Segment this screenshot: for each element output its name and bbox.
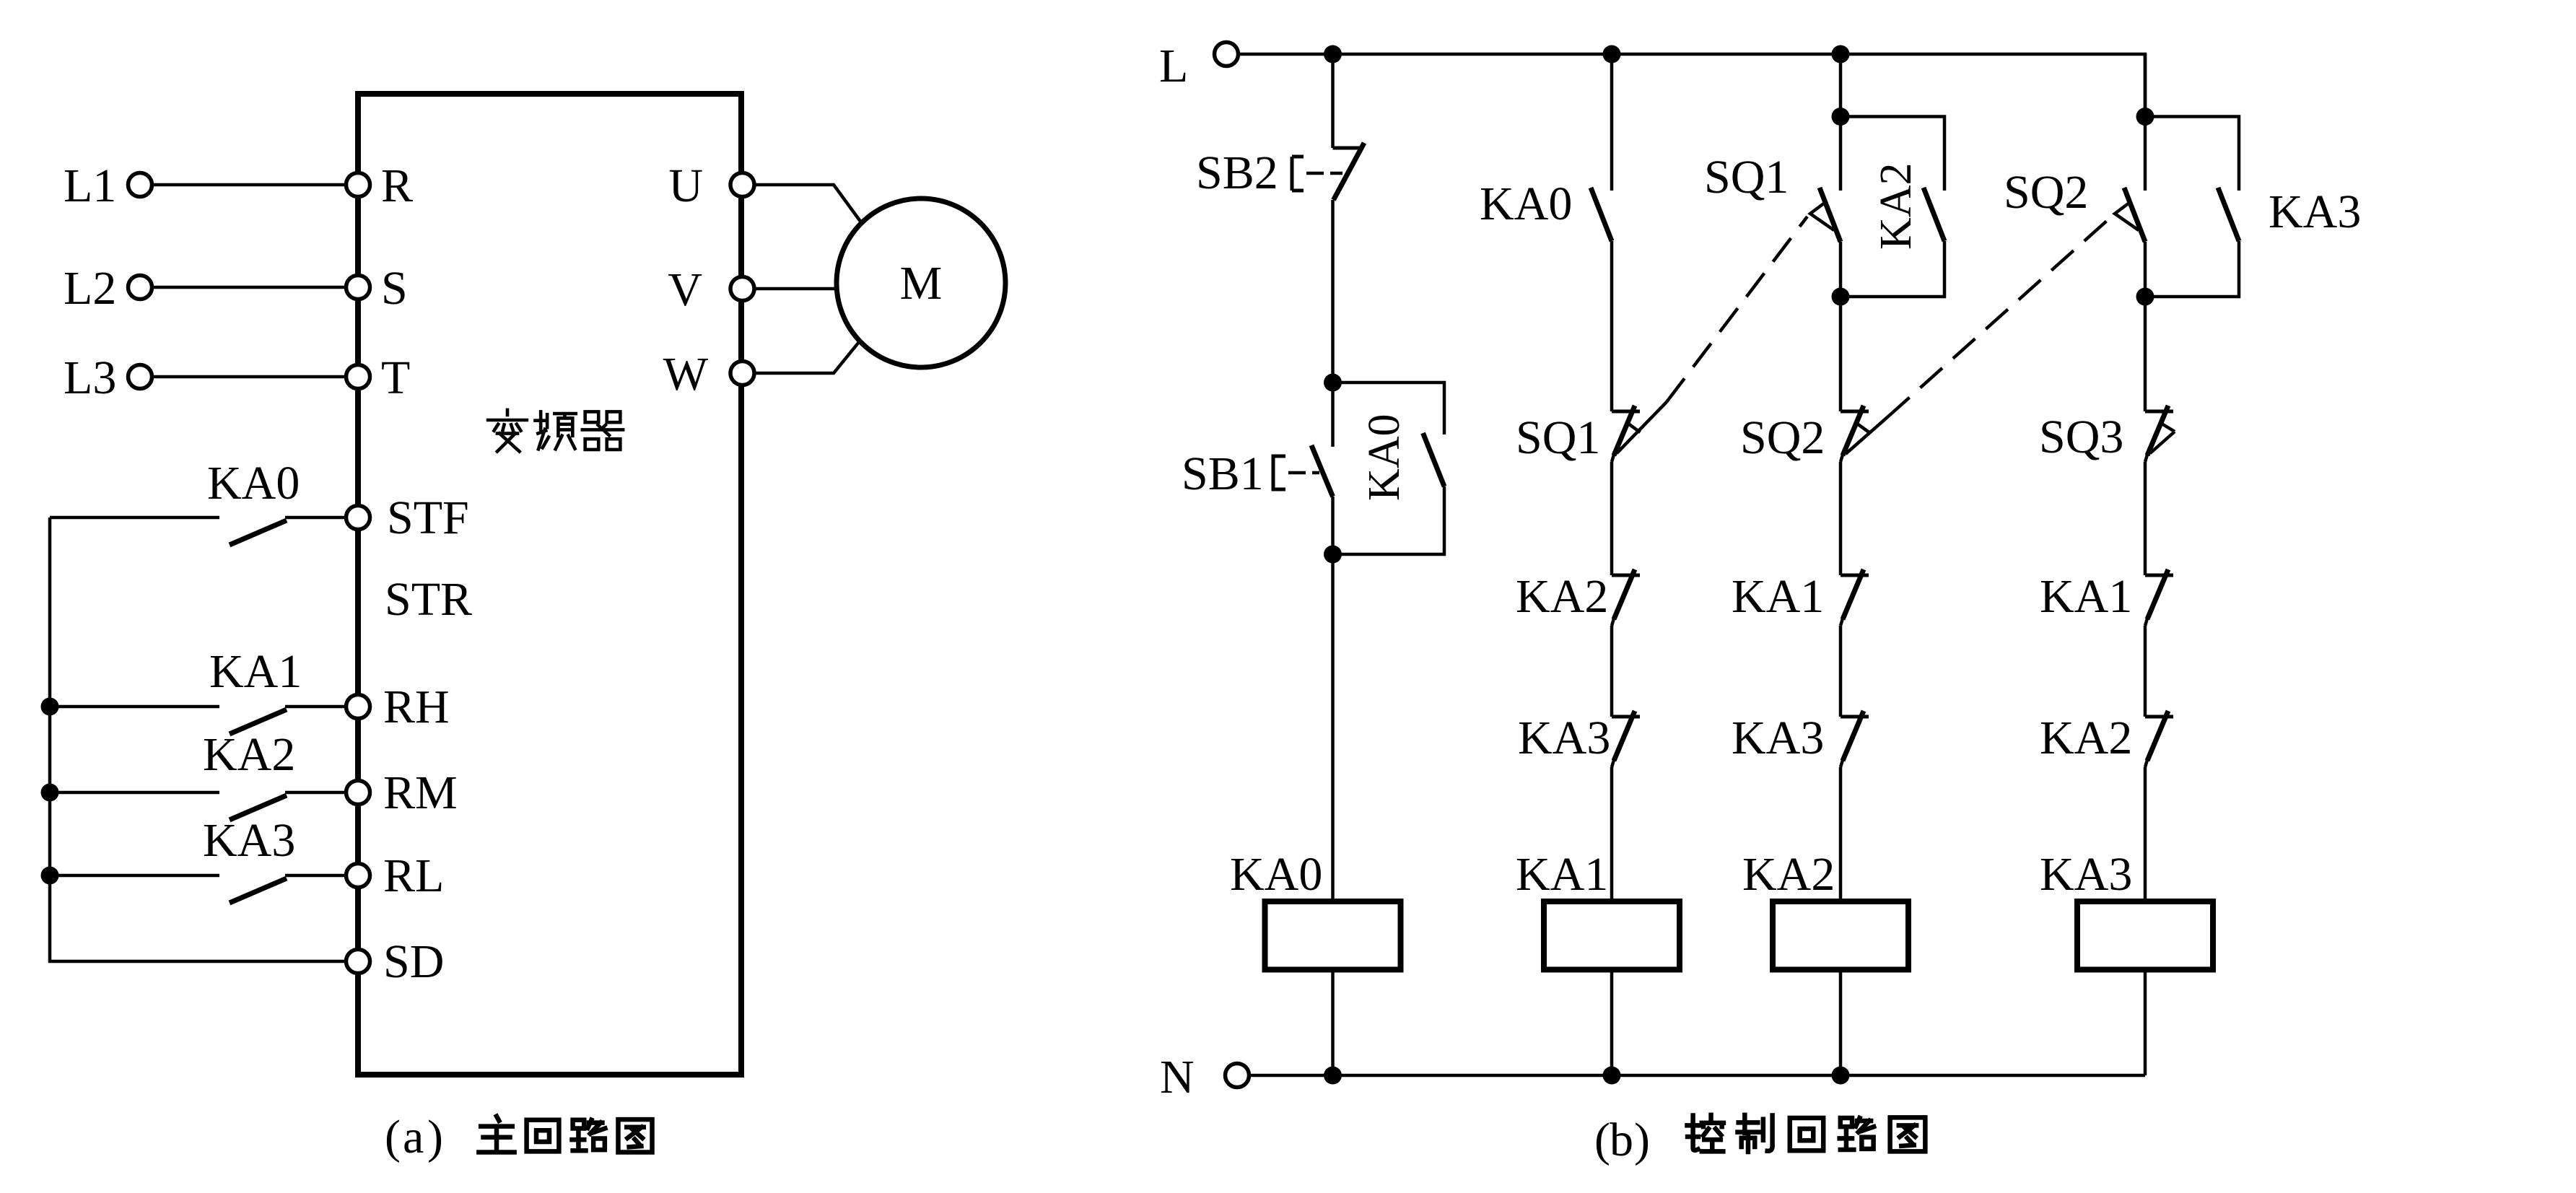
wire: [285, 705, 346, 709]
svg-text:W: W: [663, 348, 709, 401]
svg-text:KA2: KA2: [1872, 162, 1921, 250]
svg-text:KA3: KA3: [2269, 185, 2361, 238]
svg-text:KA2: KA2: [1742, 848, 1835, 901]
contact KA2 (NC): [1612, 574, 1640, 577]
svg-text:SQ3: SQ3: [2039, 411, 2123, 463]
terminal RH: [346, 695, 370, 719]
svg-text:KA2: KA2: [203, 728, 295, 781]
wire: [2144, 54, 2147, 117]
contact KA2 (NC): [2145, 715, 2173, 719]
wire: [50, 516, 219, 520]
terminal R: [346, 173, 370, 197]
switch blade: [230, 520, 287, 545]
wire: [1331, 200, 1335, 383]
junction: [41, 784, 59, 802]
wire: [1839, 767, 1843, 901]
contact KA0 latch (NO): [1333, 383, 1445, 434]
label 变频器: [488, 410, 527, 452]
svg-text:): ): [427, 1111, 443, 1163]
svg-text:L: L: [1159, 40, 1188, 92]
wire W to motor: [754, 342, 859, 373]
svg-text:V: V: [668, 263, 702, 316]
wire: [1610, 54, 1614, 191]
svg-text:a: a: [403, 1111, 424, 1163]
limit switch contact SQ3 (NC): [2145, 410, 2173, 414]
junction: [41, 698, 59, 716]
wire: [1331, 54, 1335, 148]
mechanical link SQ1 (dashed): [1667, 217, 1807, 402]
junction: [1832, 108, 1850, 126]
limit switch contact SQ1 (NO): [1839, 117, 1843, 191]
pushbutton SB2 (NC): [1333, 147, 1361, 150]
limit switch contact SQ2 (NO): [2144, 117, 2147, 191]
contact KA3 parallel branch (NO): [2145, 117, 2239, 191]
switch blade: [230, 795, 287, 820]
wire: [1610, 462, 1614, 575]
wire: [1610, 767, 1614, 901]
terminal L3: [128, 365, 152, 389]
limit switch contact SQ1 (NC): [1612, 410, 1640, 414]
svg-text:L3: L3: [64, 351, 116, 404]
wire: [2144, 297, 2147, 411]
wire V to motor: [754, 287, 837, 291]
svg-text:SQ1: SQ1: [1704, 151, 1789, 204]
wire: [50, 705, 219, 709]
svg-text:RH: RH: [383, 681, 450, 733]
wire: [1839, 626, 1843, 717]
contact KA1 (NC): [1841, 574, 1869, 577]
svg-text:KA0: KA0: [1230, 848, 1322, 901]
svg-text:RL: RL: [383, 849, 444, 902]
svg-text:SB2: SB2: [1196, 147, 1278, 199]
junction: [1832, 45, 1850, 64]
terminal RM: [346, 781, 370, 805]
contact KA2 parallel branch (NO): [1841, 117, 1944, 191]
wire N rail: [1249, 1074, 2145, 1078]
svg-text:S: S: [381, 262, 408, 315]
wire common left rail: [50, 517, 346, 961]
contact KA3 (NC): [1841, 715, 1869, 719]
wire: [152, 286, 346, 289]
wire: [1839, 462, 1843, 575]
wire: [50, 874, 219, 878]
svg-text:KA1: KA1: [1732, 570, 1824, 623]
svg-text:KA2: KA2: [1516, 570, 1608, 623]
junction: [41, 867, 59, 885]
terminal L2: [128, 276, 152, 300]
wire: [152, 375, 346, 379]
svg-text:SD: SD: [383, 935, 444, 988]
svg-text:KA1: KA1: [1516, 848, 1608, 901]
wire U to motor: [754, 185, 861, 222]
wire: [285, 791, 346, 795]
junction: [2136, 288, 2154, 306]
switch blade: [230, 878, 287, 903]
node L: [1215, 43, 1239, 66]
junction: [1324, 546, 1342, 564]
wire L rail: [1239, 54, 2145, 117]
svg-text:SQ1: SQ1: [1516, 411, 1600, 464]
svg-text:KA3: KA3: [203, 814, 295, 867]
terminal T: [346, 365, 370, 389]
wire: [2144, 970, 2147, 1076]
wire: [285, 874, 346, 878]
wire: [1610, 970, 1614, 1076]
wire: [1839, 970, 1843, 1076]
pushbutton SB1 (NO): [1331, 383, 1335, 447]
svg-text:KA3: KA3: [2040, 848, 2132, 901]
svg-text:STF: STF: [387, 491, 469, 544]
contact KA3 (NC): [1612, 715, 1640, 719]
wire: [1839, 297, 1843, 411]
wire: [50, 791, 219, 795]
svg-text:SB1: SB1: [1182, 447, 1264, 500]
svg-text:T: T: [381, 351, 410, 404]
svg-text:KA1: KA1: [209, 645, 302, 698]
terminal SD: [346, 950, 370, 974]
junction: [1324, 374, 1342, 392]
terminal L1: [128, 173, 152, 197]
terminal RL: [346, 864, 370, 888]
svg-text:KA2: KA2: [2040, 712, 2132, 764]
junction: [2136, 108, 2154, 126]
junction: [1832, 1067, 1850, 1085]
wire: [285, 516, 346, 520]
svg-text:(: (: [1594, 1114, 1610, 1166]
svg-text:KA1: KA1: [2040, 570, 2132, 623]
svg-text:L1: L1: [64, 159, 116, 212]
junction: [1603, 1067, 1621, 1085]
svg-text:KA3: KA3: [1518, 712, 1610, 764]
svg-text:KA3: KA3: [1732, 712, 1824, 764]
wire: [2144, 767, 2147, 901]
svg-text:RM: RM: [383, 766, 458, 819]
svg-text:KA0: KA0: [207, 457, 300, 510]
svg-text:STR: STR: [385, 573, 472, 626]
mechanical link SQ2 (dashed): [1887, 220, 2108, 417]
junction: [1603, 45, 1621, 64]
wire: [1331, 497, 1335, 901]
contact KA1 (NC): [2145, 574, 2173, 577]
svg-text:SQ2: SQ2: [2004, 166, 2088, 219]
terminal U: [730, 173, 754, 197]
wire: [1839, 242, 1843, 297]
contact KA0 (NO): [1591, 188, 1612, 241]
wire: [1331, 970, 1335, 1076]
svg-text:R: R: [381, 159, 413, 212]
svg-text:M: M: [900, 257, 943, 310]
svg-text:(: (: [385, 1111, 401, 1163]
junction: [1324, 45, 1342, 64]
svg-text:L2: L2: [64, 262, 116, 315]
wire: [2144, 626, 2147, 717]
svg-text:): ): [1634, 1114, 1650, 1166]
svg-text:N: N: [1160, 1051, 1195, 1104]
terminal V: [730, 277, 754, 301]
wire: [2144, 462, 2147, 575]
inverter box U0 变频器: [358, 94, 741, 1075]
svg-text:U: U: [668, 159, 703, 212]
wire: [152, 183, 346, 187]
svg-text:SQ2: SQ2: [1740, 411, 1825, 464]
terminal S: [346, 276, 370, 300]
switch blade: [230, 709, 287, 734]
node N: [1226, 1064, 1249, 1088]
terminal W: [730, 362, 754, 385]
wire: [1610, 241, 1614, 411]
wire: [1610, 626, 1614, 717]
svg-text:KA0: KA0: [1480, 178, 1572, 230]
svg-text:b: b: [1610, 1114, 1633, 1166]
motor M1: [837, 198, 1005, 367]
wire: [1839, 54, 1843, 117]
junction: [1324, 1067, 1342, 1085]
junction: [1832, 288, 1850, 306]
limit switch contact SQ2 (NC): [1841, 410, 1869, 414]
svg-text:KA0: KA0: [1360, 414, 1409, 501]
terminal STF: [346, 506, 370, 530]
wire: [2144, 242, 2147, 297]
